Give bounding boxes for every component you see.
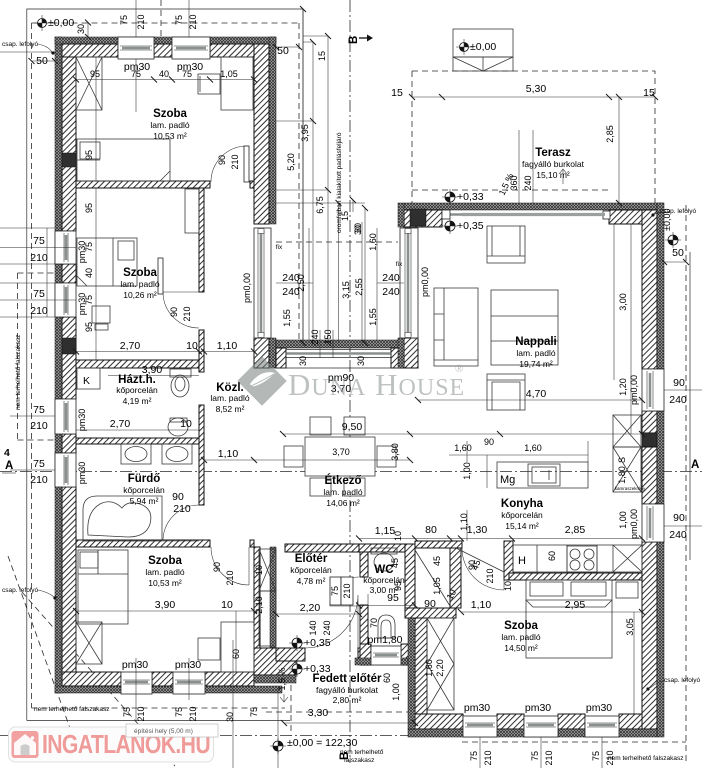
svg-text:10,26 m²: 10,26 m² — [123, 290, 157, 300]
svg-text:2,70: 2,70 — [110, 418, 131, 430]
svg-text:1,60: 1,60 — [524, 443, 542, 453]
svg-text:1,10: 1,10 — [471, 599, 492, 611]
svg-text:75: 75 — [174, 15, 184, 25]
svg-text:lam. padló: lam. padló — [323, 487, 362, 497]
svg-text:pm0,00: pm0,00 — [242, 273, 252, 303]
Szoba4 west wall — [415, 618, 427, 714]
svg-text:Szoba: Szoba — [123, 267, 157, 279]
svg-text:240: 240 — [382, 272, 400, 284]
svg-text:10: 10 — [254, 565, 264, 575]
svg-text:4,70: 4,70 — [526, 388, 547, 400]
svg-text:pm30: pm30 — [525, 702, 551, 714]
svg-text:lam. padló: lam. padló — [150, 120, 189, 130]
svg-text:lam. padló: lam. padló — [120, 279, 159, 289]
svg-text:60: 60 — [382, 673, 392, 683]
Szoba3 east wall — [254, 547, 260, 648]
wardrobe X Eloter/Szoba3 side — [259, 549, 276, 646]
wall Furdo/Szoba3 — [76, 540, 210, 547]
east wall brick — [642, 210, 657, 369]
Hazth dim — [76, 429, 199, 431]
svg-text:210: 210 — [30, 420, 48, 432]
svg-text:lam. padló: lam. padló — [210, 393, 249, 403]
svg-text:2,10: 2,10 — [254, 596, 264, 614]
svg-text:1,05: 1,05 — [432, 577, 442, 595]
east insulation — [657, 203, 664, 369]
svg-text:csap. lefolyó: csap. lefolyó — [660, 208, 697, 215]
svg-text:240: 240 — [669, 394, 687, 406]
svg-text:240: 240 — [669, 529, 687, 541]
Szoba3 wardrobe — [76, 622, 102, 664]
svg-text:lam. padló: lam. padló — [145, 567, 184, 577]
left wall window 4 (Furdo) — [55, 453, 76, 487]
svg-text:210: 210 — [230, 154, 240, 169]
svg-text:75: 75 — [33, 404, 45, 416]
svg-text:fix: fix — [276, 244, 283, 251]
Furdo sinks — [121, 444, 192, 464]
svg-text:1,60: 1,60 — [368, 233, 378, 251]
wall Szoba1/Szoba2 — [76, 181, 210, 188]
svg-text:pm1,80: pm1,80 — [367, 634, 402, 646]
big window Nappali west wall — [400, 228, 418, 338]
svg-text:80: 80 — [425, 524, 437, 536]
svg-text:1,60: 1,60 — [454, 443, 472, 453]
svg-text:±0,00 = 122,30: ±0,00 = 122,30 — [287, 737, 357, 749]
Konyha dims — [449, 455, 588, 488]
door Szoba3 — [211, 547, 249, 585]
+-0,00 east side rotated — [662, 209, 681, 248]
svg-text:1,00: 1,00 — [391, 683, 401, 701]
dim 30 top-left — [87, 23, 89, 38]
Szoba2 bed — [77, 238, 137, 286]
insulation right (courtyard side) — [269, 37, 276, 224]
top insulation — [404, 203, 663, 210]
svg-text:3,05: 3,05 — [625, 618, 635, 636]
Szoba2 nightstand — [92, 306, 110, 330]
NW pillar — [404, 210, 442, 227]
svg-text:90: 90 — [467, 560, 477, 570]
WC west wall — [360, 552, 368, 577]
svg-text:1,05: 1,05 — [220, 69, 238, 79]
Eloter south wall with entry — [276, 648, 305, 661]
Szoba3 bed — [78, 550, 128, 624]
svg-text:nem terhelhető falszakasz: nem terhelhető falszakasz — [34, 706, 110, 713]
svg-text:Konyha: Konyha — [501, 498, 544, 510]
svg-text:75: 75 — [174, 707, 184, 717]
Konyha south wall west part + door — [415, 541, 462, 548]
svg-text:75: 75 — [122, 707, 132, 717]
svg-text:10: 10 — [393, 531, 403, 541]
3,30 porch dim — [284, 722, 415, 724]
Szoba1 wardrobe — [76, 57, 102, 110]
svg-text:45: 45 — [390, 558, 400, 568]
svg-text:Nappali: Nappali — [515, 336, 557, 348]
svg-text:210: 210 — [136, 706, 146, 721]
window top 1 (pm30) — [118, 37, 154, 59]
svg-text:kőporcelán: kőporcelán — [501, 510, 543, 520]
svg-text:1,55: 1,55 — [368, 308, 378, 326]
svg-text:240: 240 — [322, 620, 332, 635]
svg-text:2,95: 2,95 — [565, 599, 586, 611]
Nappali sofa — [434, 288, 478, 366]
svg-text:30: 30 — [76, 24, 86, 34]
wall x199 vertical (Szoba2/Kozl, Hazth, Furdo) — [199, 188, 204, 292]
svg-text:pm30: pm30 — [77, 409, 87, 432]
svg-text:210: 210 — [173, 503, 191, 515]
Eloter dim 2,20 — [276, 613, 359, 615]
Konyha counter row — [513, 545, 642, 572]
svg-text:60: 60 — [547, 551, 557, 561]
Eloter north wall — [285, 544, 359, 552]
svg-text:60: 60 — [231, 649, 241, 659]
svg-text:kőporcelán: kőporcelán — [290, 565, 332, 575]
right wall of left wing (upper) — [254, 44, 269, 224]
svg-text:3,70: 3,70 — [332, 447, 350, 457]
page border top-left — [27, 9, 303, 721]
svg-text:75: 75 — [33, 288, 45, 300]
svg-text:75: 75 — [249, 707, 259, 717]
svg-text:építési hely (5,00 m): építési hely (5,00 m) — [134, 728, 193, 735]
Nappali armchair 2 — [487, 374, 525, 410]
svg-text:75: 75 — [530, 751, 540, 761]
Terasz steps — [453, 29, 513, 71]
nook east wall — [450, 541, 461, 608]
svg-text:Étkező: Étkező — [324, 474, 361, 487]
svg-text:95: 95 — [393, 581, 403, 591]
svg-text:pm30: pm30 — [175, 659, 201, 671]
+-0,00 terasz steps — [456, 39, 496, 55]
csap lefolyo labels — [2, 41, 55, 55]
courtyard window dims — [276, 228, 313, 340]
Szoba2 dim — [76, 188, 254, 360]
big window left-wing right wall (pm0,00 240/240) — [254, 228, 271, 338]
svg-text:210: 210 — [182, 306, 192, 321]
dark pillars in left wall — [62, 153, 76, 167]
svg-text:±0,00: ±0,00 — [48, 17, 74, 29]
door WC — [330, 577, 359, 606]
pm90 glazing — [286, 352, 391, 355]
svg-text:2,85: 2,85 — [565, 524, 586, 536]
svg-text:3,00: 3,00 — [618, 293, 628, 311]
svg-text:3,30: 3,30 — [308, 707, 329, 719]
svg-text:95: 95 — [90, 69, 100, 79]
svg-text:95: 95 — [84, 150, 94, 160]
dim 50 top-left — [0, 52, 55, 61]
Nappali west wall: stub below window — [404, 338, 418, 368]
svg-text:Szoba: Szoba — [504, 620, 538, 632]
svg-text:2,20: 2,20 — [435, 659, 445, 677]
svg-text:1,00: 1,00 — [618, 511, 628, 529]
svg-text:Szoba: Szoba — [148, 555, 182, 567]
svg-text:9,50: 9,50 — [342, 421, 363, 433]
svg-text:95: 95 — [387, 592, 399, 604]
9,50 line — [283, 433, 642, 435]
svg-text:Terasz: Terasz — [535, 147, 571, 159]
Furdo bathtub — [83, 496, 162, 541]
Hazth appliance 2 — [168, 418, 188, 436]
svg-text:95: 95 — [84, 203, 94, 213]
svg-text:1,10: 1,10 — [217, 340, 238, 352]
Hazth K box — [77, 368, 100, 389]
door Szoba1 — [211, 146, 249, 182]
svg-text:3,95: 3,95 — [300, 124, 310, 142]
svg-text:5,30: 5,30 — [526, 83, 547, 95]
svg-text:csap. lefolyó: csap. lefolyó — [664, 677, 701, 684]
Konyha tall cabinets east — [613, 415, 641, 492]
svg-text:nem terhelhető falszakasz: nem terhelhető falszakasz — [15, 334, 22, 410]
svg-text:4,19 m²: 4,19 m² — [123, 396, 152, 406]
svg-text:30: 30 — [298, 356, 308, 366]
east wall dims — [664, 261, 686, 263]
svg-text:fagyálló burkolat: fagyálló burkolat — [316, 685, 379, 695]
svg-text:90: 90 — [217, 155, 227, 165]
svg-text:lam. padló: lam. padló — [501, 632, 540, 642]
nook diagonals — [415, 548, 504, 606]
svg-text:210: 210 — [30, 305, 48, 317]
svg-text:90: 90 — [172, 491, 184, 503]
svg-text:±0,00: ±0,00 — [470, 41, 496, 53]
svg-text:10: 10 — [503, 581, 513, 591]
svg-text:Fürdő: Fürdő — [128, 473, 161, 485]
svg-text:3,90: 3,90 — [142, 364, 163, 376]
svg-text:75: 75 — [330, 586, 340, 596]
svg-text:150: 150 — [323, 329, 333, 344]
svg-text:15,14 m²: 15,14 m² — [505, 521, 539, 531]
svg-text:8,52 m²: 8,52 m² — [216, 404, 245, 414]
svg-text:90: 90 — [484, 437, 494, 447]
svg-text:90: 90 — [424, 598, 436, 610]
svg-text:210: 210 — [188, 14, 198, 29]
svg-text:90: 90 — [673, 512, 685, 524]
svg-text:3,15: 3,15 — [341, 281, 351, 299]
Etkezo table — [284, 417, 396, 496]
door Furdo — [163, 505, 199, 541]
insulation left — [55, 37, 62, 693]
door Szoba2 — [158, 258, 199, 328]
svg-text:15: 15 — [317, 51, 327, 61]
svg-text:pm30: pm30 — [586, 702, 612, 714]
svg-text:75: 75 — [84, 295, 94, 305]
svg-text:1,20: 1,20 — [618, 378, 628, 396]
svg-text:kamraszekrény: kamraszekrény — [615, 486, 646, 491]
plot dashed envelope left — [32, 22, 300, 24]
dashed tie line courtyard — [276, 241, 398, 243]
svg-text:240: 240 — [382, 286, 400, 298]
Hazth 3,90 line — [108, 375, 199, 377]
Szoba4 bed — [526, 580, 612, 658]
svg-text:210: 210 — [544, 750, 554, 765]
svg-text:30: 30 — [356, 356, 366, 366]
svg-text:H: H — [518, 555, 526, 567]
svg-text:210: 210 — [136, 14, 146, 29]
svg-text:75: 75 — [182, 69, 192, 79]
svg-text:240: 240 — [523, 175, 533, 190]
svg-text:B: B — [339, 752, 351, 760]
svg-text:kőporcelán: kőporcelán — [116, 385, 158, 395]
dashed property line right — [685, 205, 687, 765]
insulation top — [55, 37, 276, 44]
svg-text:1,80: 1,80 — [617, 466, 627, 484]
svg-text:90: 90 — [212, 562, 222, 572]
Szoba1 bed — [77, 139, 170, 181]
svg-text:140: 140 — [308, 620, 318, 635]
svg-text:Szoba: Szoba — [153, 108, 187, 120]
svg-text:75: 75 — [591, 751, 601, 761]
svg-text:pm0,00: pm0,00 — [420, 267, 430, 297]
svg-text:+0,33: +0,33 — [457, 191, 484, 203]
svg-text:2,55: 2,55 — [354, 278, 364, 296]
left wall window 1 — [55, 231, 76, 264]
svg-text:30: 30 — [353, 223, 363, 233]
svg-text:A: A — [5, 460, 13, 472]
svg-text:nem terhelhető falszakasz: nem terhelhető falszakasz — [608, 755, 684, 762]
svg-text:75: 75 — [33, 235, 45, 247]
WC door boxed labels — [330, 577, 353, 605]
svg-text:70: 70 — [369, 618, 379, 628]
+0,35 porch upper — [289, 635, 331, 651]
svg-text:csap. lefolyó: csap. lefolyó — [2, 587, 39, 594]
Szoba1 desk — [198, 57, 253, 110]
svg-text:50: 50 — [277, 45, 289, 57]
Nappali 3,00 vertical — [614, 224, 631, 434]
drain diagonal dashed lines bottom-left — [8, 556, 75, 742]
svg-text:+0,33: +0,33 — [304, 663, 331, 675]
svg-text:240: 240 — [310, 329, 320, 344]
svg-text:fix: fix — [396, 261, 403, 268]
svg-text:50: 50 — [672, 247, 684, 259]
svg-text:pm30: pm30 — [122, 659, 148, 671]
terasz dashed outline — [412, 71, 655, 203]
svg-text:95: 95 — [84, 322, 94, 332]
svg-text:75: 75 — [84, 242, 94, 252]
svg-text:1,00: 1,00 — [462, 462, 472, 480]
WC north wall — [359, 544, 409, 552]
svg-text:40: 40 — [159, 69, 169, 79]
svg-text:2,85: 2,85 — [605, 125, 615, 143]
top window centerlines — [136, 0, 189, 37]
svg-text:2,20: 2,20 — [300, 602, 321, 614]
svg-text:csap. lefolyó: csap. lefolyó — [2, 41, 39, 48]
+0,33 porch lower — [289, 661, 331, 677]
svg-text:15: 15 — [391, 87, 403, 99]
svg-text:210: 210 — [485, 568, 495, 583]
Konyha island — [497, 462, 588, 488]
WC window pm1,80 — [371, 646, 401, 665]
svg-text:45: 45 — [432, 556, 442, 566]
bottom wall brick — [62, 672, 121, 686]
svg-text:10: 10 — [180, 418, 192, 430]
svg-text:3,80: 3,80 — [390, 443, 400, 461]
Szoba1 interior dim — [76, 57, 254, 181]
svg-text:1,30: 1,30 — [467, 524, 488, 536]
svg-text:210: 210 — [30, 252, 48, 264]
WC toilet — [371, 548, 397, 571]
nook south wall — [405, 608, 456, 618]
left wall window 3 (Hazth) — [55, 399, 76, 434]
wardrobe X Szoba4 corridor — [427, 618, 454, 710]
svg-text:210: 210 — [483, 750, 493, 765]
terasz slab gray bar — [462, 213, 605, 216]
Nappali coffee table — [491, 290, 558, 365]
svg-text:210: 210 — [30, 474, 48, 486]
svg-text:1,10: 1,10 — [218, 448, 239, 460]
svg-text:+0,35: +0,35 — [304, 637, 331, 649]
svg-text:14,06 m²: 14,06 m² — [326, 498, 360, 508]
bottom wall windows left wing — [121, 672, 152, 694]
svg-text:2,80 m²: 2,80 m² — [333, 695, 362, 705]
east wall window 2 (Konyha) — [642, 504, 664, 542]
entry door Eloter — [305, 595, 358, 648]
left side window dims — [0, 228, 76, 264]
svg-text:pm0,00: pm0,00 — [629, 509, 639, 539]
+-0,00 = 122,30 bottom — [270, 737, 357, 754]
svg-text:1,60: 1,60 — [424, 659, 434, 677]
svg-text:fagyálló burkolat: fagyálló burkolat — [522, 159, 585, 169]
4,70 line — [418, 399, 642, 401]
svg-text:210: 210 — [188, 706, 198, 721]
terrace door glazing — [446, 213, 607, 216]
svg-text:30: 30 — [225, 712, 235, 722]
svg-text:75: 75 — [131, 69, 141, 79]
right wing bottom wall — [415, 714, 463, 729]
svg-text:19,74 m²: 19,74 m² — [519, 359, 553, 369]
svg-text:1,5 %: 1,5 % — [277, 667, 287, 690]
svg-text:Mg: Mg — [500, 474, 515, 486]
WC dims — [359, 594, 415, 606]
svg-text:lam. padló: lam. padló — [516, 348, 555, 358]
left wall brick — [62, 44, 76, 231]
wall Hazth/Furdo — [76, 438, 199, 444]
svg-text:75: 75 — [469, 751, 479, 761]
Szoba3 dim — [76, 611, 254, 672]
left wall window 2 — [55, 283, 76, 317]
svg-text:2,70: 2,70 — [120, 340, 141, 352]
bottom wall windows right wing — [463, 716, 497, 737]
svg-text:Előtér: Előtér — [295, 553, 328, 565]
WC east wall — [405, 544, 415, 618]
svg-text:B: B — [348, 36, 360, 44]
right wall lower stub — [254, 338, 269, 368]
svg-text:pm0,00: pm0,00 — [629, 375, 639, 405]
+-0,00 top left — [34, 15, 74, 31]
svg-text:10,53 m²: 10,53 m² — [148, 578, 182, 588]
fedett eloter dashed edges — [290, 675, 292, 736]
Konyha/Szoba4 wall — [509, 573, 642, 580]
terasz dims — [412, 96, 655, 98]
svg-text:5,20: 5,20 — [286, 153, 296, 171]
Nappali armchair 1 — [487, 226, 525, 263]
WC basin — [378, 615, 395, 638]
svg-text:15: 15 — [643, 87, 655, 99]
svg-text:10,53 m²: 10,53 m² — [153, 131, 187, 141]
Kozl 1,10 / 3,70 dim — [204, 459, 410, 461]
svg-text:2,50: 2,50 — [296, 274, 306, 292]
svg-text:kőporcelán: kőporcelán — [123, 485, 165, 495]
east wall window 1 — [642, 369, 664, 411]
svg-text:+0,35: +0,35 — [457, 220, 484, 232]
svg-text:®: ® — [455, 363, 463, 375]
svg-text:5,94 m²: 5,94 m² — [130, 496, 159, 506]
section markers — [2, 447, 16, 473]
svg-text:S: S — [617, 457, 627, 463]
door Szoba4 — [462, 548, 504, 590]
svg-text:14,50 m²: 14,50 m² — [504, 643, 538, 653]
Szoba2 wardrobe right — [185, 189, 199, 233]
svg-text:4,78 m²: 4,78 m² — [297, 576, 326, 586]
svg-text:1,55: 1,55 — [282, 309, 292, 327]
svg-text:75: 75 — [33, 458, 45, 470]
window top 2 (pm30) — [172, 37, 210, 59]
svg-text:40: 40 — [84, 268, 94, 278]
